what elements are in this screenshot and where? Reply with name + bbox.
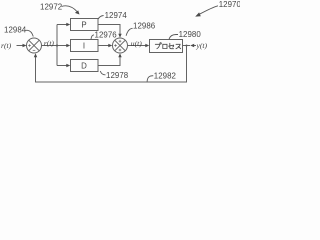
svg-text:12980: 12980 [179,30,202,39]
svg-text:I: I [83,41,85,50]
svg-text:12986: 12986 [133,21,156,30]
svg-text:12982: 12982 [154,71,176,80]
svg-text:12978: 12978 [106,71,129,80]
svg-text:r(t): r(t) [1,41,12,50]
svg-text:y(t): y(t) [196,41,208,50]
svg-text:D: D [81,61,87,70]
svg-text:u(t): u(t) [131,39,142,48]
svg-text:12970: 12970 [219,0,240,9]
svg-text:12972: 12972 [40,2,62,11]
svg-text:ε(t): ε(t) [44,38,55,47]
svg-text:12976: 12976 [95,31,118,40]
svg-text:12984: 12984 [4,25,27,34]
svg-text:P: P [81,20,86,29]
svg-text:12974: 12974 [105,11,128,20]
